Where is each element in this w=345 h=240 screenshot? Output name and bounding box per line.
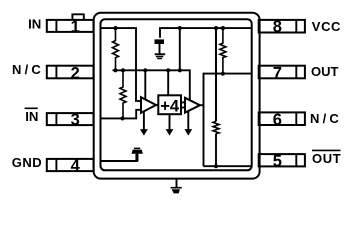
pin 4 pad divider [55, 159, 57, 171]
node: bus / divider feed junction [166, 68, 170, 72]
wire: rail to bottom rail (through R4) [215, 28, 217, 121]
svg-text:6: 6 [273, 111, 282, 129]
current source arrow 2 [169, 114, 171, 129]
op-amp U2 output buffer [185, 98, 200, 113]
node: rail A / R1 junction [113, 26, 117, 30]
ground under C1 [155, 53, 166, 59]
pin 3 box [47, 113, 94, 125]
node: pin3 wire / R2 junction [120, 116, 124, 120]
current source arrow 3 [187, 111, 189, 130]
ground symbol at pin4 (pointing up) [134, 148, 140, 150]
node: bus / R2 junction [121, 68, 125, 72]
svg-text:N/C: N/C [310, 111, 342, 126]
wire: VCC rail to bus [179, 28, 181, 70]
pin 3 pad divider [55, 113, 57, 125]
wire: bus to left buffer top [144, 70, 146, 100]
svg-text:8: 8 [273, 18, 282, 36]
svg-text:2: 2 [71, 64, 80, 82]
wire: OUT segment to pin7 [204, 74, 253, 167]
wire: pin1 IN rail to buffer input [100, 28, 142, 101]
arrowhead 3 [184, 129, 192, 136]
node: VCC rail / R4 junction [214, 26, 218, 30]
pin 1 index tab [72, 14, 83, 20]
pin 7 box [259, 66, 305, 79]
arrowhead 2 [166, 129, 174, 136]
divider block +4 [158, 95, 181, 114]
resistor R1 [113, 28, 119, 70]
pin 5 box [259, 154, 305, 166]
ground symbol external (bottom) [171, 187, 182, 189]
node: OUT wire / R3 junction [221, 72, 225, 76]
svg-text:1: 1 [71, 18, 80, 36]
svg-text:GND: GND [12, 155, 42, 170]
current source arrow 1 [143, 112, 145, 129]
pin 7 pad divider [295, 66, 297, 79]
pin 8 pad divider [295, 20, 297, 33]
wire: divider outputs [181, 101, 185, 103]
wire: OUTbar segment to pin5 [204, 165, 253, 167]
node: VCC rail / drop junction [178, 26, 182, 30]
wire: bus to divider box top [167, 70, 169, 96]
svg-text:4: 4 [71, 157, 81, 175]
svg-text:N/C: N/C [12, 62, 44, 77]
IC body inner outline [101, 19, 252, 170]
pin 6 pad divider [295, 112, 297, 125]
node: OUTbar wire / R4 junction [214, 164, 218, 168]
arrowhead 1 [140, 129, 148, 136]
wire: external ground stem [176, 179, 178, 187]
wire: pin4 GND lead [100, 154, 137, 161]
pin 2 box [47, 66, 94, 79]
pin 5 pad divider [295, 154, 297, 166]
wire: capacitor lower lead [159, 44, 161, 54]
wire: R4 to bottom rail [215, 134, 217, 167]
resistor R4 [213, 121, 219, 133]
svg-text:IN: IN [25, 109, 38, 124]
op-amp U1 input buffer [141, 97, 156, 113]
svg-text:OUT: OUT [311, 64, 339, 79]
capacitor C1 [155, 39, 165, 44]
wire: buffer to divider [156, 104, 158, 106]
node: bus / buffer top junction [143, 68, 147, 72]
resistor R2 [120, 70, 126, 118]
resistor R3 [220, 28, 226, 74]
svg-text:7: 7 [273, 64, 282, 82]
svg-text:3: 3 [71, 111, 80, 129]
node: bus / VCC drop junction [178, 68, 182, 72]
pin 6 box [259, 112, 305, 125]
svg-text:5: 5 [273, 152, 282, 170]
svg-text:+4: +4 [160, 98, 180, 116]
wire: output buffer to OUT wire [200, 104, 204, 106]
node: VCC rail / R3 junction [221, 26, 225, 30]
wire: VCC rail (pin 8) [160, 28, 253, 38]
wire: VBB bus [113, 70, 190, 100]
wire: pin3 input wire [100, 110, 142, 119]
pin 2 pad divider [55, 66, 57, 79]
svg-text:VCC: VCC [312, 19, 341, 34]
svg-text:OUT: OUT [312, 151, 341, 166]
pin 1 box [47, 20, 94, 32]
pin 1 pad divider [55, 20, 57, 32]
pin 4 box [47, 159, 94, 171]
IC body outer outline [94, 13, 260, 179]
svg-text:IN: IN [28, 16, 41, 31]
node: bus / R1 junction [113, 68, 117, 72]
pin 8 box [259, 20, 305, 33]
